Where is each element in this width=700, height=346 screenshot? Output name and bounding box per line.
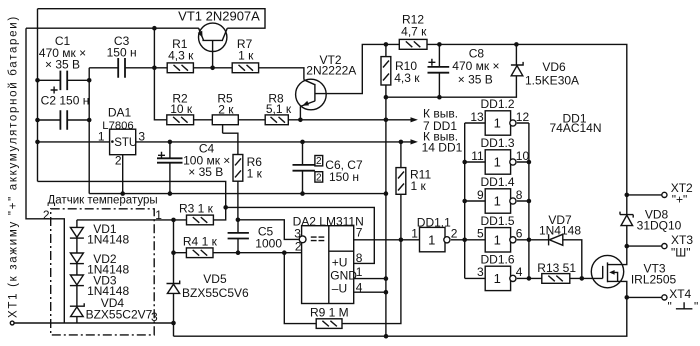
- svg-text:R3 1 к: R3 1 к: [179, 201, 214, 215]
- svg-text:150 н: 150 н: [329, 170, 359, 184]
- wire XT3 stub: [627, 245, 662, 247]
- junction at (225.7,207.4): [223, 205, 228, 210]
- resistor R4: [186, 248, 213, 258]
- junction at (173.5,323): [171, 321, 176, 326]
- transistor VT1: [198, 23, 228, 51]
- junction at (400.9,239.8): [399, 238, 404, 243]
- svg-text:74AC14N: 74AC14N: [549, 121, 601, 135]
- svg-text:DD1.5: DD1.5: [481, 214, 515, 228]
- svg-text:1000: 1000: [255, 237, 282, 251]
- svg-text:4,3 к: 4,3 к: [168, 49, 194, 63]
- wire DA2 pin7 to DD1.1: [354, 239, 420, 241]
- wire emitter row to ground node x386: [300, 119, 386, 121]
- junction at (439.4,97.2): [437, 95, 442, 100]
- wire R3 leads: [213, 207, 225, 220]
- svg-text:VD6: VD6: [542, 60, 566, 74]
- svg-text:1: 1: [494, 116, 501, 131]
- wire bottom rail: [174, 297, 627, 336]
- svg-text:470 мк ×: 470 мк ×: [452, 59, 499, 73]
- svg-text:5,1 к: 5,1 к: [266, 102, 292, 116]
- svg-text:3: 3: [477, 265, 484, 279]
- svg-text:C2 150 н: C2 150 н: [41, 94, 90, 108]
- svg-text:31DQ10: 31DQ10: [637, 218, 682, 232]
- wire bus to VD7: [529, 239, 549, 241]
- junction at (528.9,162): [527, 160, 532, 165]
- comparator DA2: [299, 226, 354, 304]
- junction at (626.8,194.9): [625, 193, 630, 198]
- wire VT2 collector up to R12: [327, 44, 399, 93]
- junction at (581.8,278.4): [580, 276, 585, 281]
- svg-text:13: 13: [470, 110, 484, 124]
- wire DA1 pin1: [38, 141, 110, 143]
- logic gate DD1.2: [485, 111, 516, 135]
- junction at (400.9,141.9): [399, 140, 404, 145]
- svg-text:IRL2505: IRL2505: [631, 273, 677, 287]
- resistor R3: [187, 215, 214, 225]
- junction at (302.5,193.6): [300, 191, 305, 196]
- protection diode VD6: [511, 62, 523, 76]
- svg-text:× 35 В: × 35 В: [458, 73, 493, 87]
- junction at (464.7,201): [462, 199, 467, 204]
- svg-text:7: 7: [356, 226, 363, 240]
- svg-text:XT1 (к зажиму "+" аккумуляторн: XT1 (к зажиму "+" аккумуляторной батареи…: [7, 15, 19, 318]
- capacitor C6 C7: [293, 165, 315, 171]
- svg-text:2: 2: [316, 172, 322, 183]
- svg-text:"+": "+": [672, 192, 688, 206]
- junction at (626.8,246.1): [625, 244, 630, 249]
- capacitor C2: [60, 110, 67, 130]
- junction at (385.9,97.2): [384, 95, 389, 100]
- logic gate DD1.1: [420, 227, 451, 251]
- resistor R12: [399, 39, 427, 49]
- wire XT1 row: [14, 323, 174, 336]
- svg-text:2 к: 2 к: [218, 102, 234, 116]
- wire top rail (VT1 collector to DA1 input node): [38, 9, 266, 29]
- junction at (122.7,193.6): [120, 191, 125, 196]
- wire R12 to right rail and down right edge: [427, 44, 627, 214]
- capacitor C8 plus sign: [428, 59, 435, 66]
- svg-text:2: 2: [451, 226, 458, 240]
- svg-text:10 к: 10 к: [170, 102, 193, 116]
- wire R11 leads: [400, 142, 402, 240]
- svg-text:DD1.1: DD1.1: [417, 216, 451, 230]
- junction at (169.9,141.9): [168, 140, 173, 145]
- schottky diode VD8: [620, 212, 633, 226]
- svg-text:1 к: 1 к: [411, 179, 427, 193]
- svg-text:12: 12: [516, 110, 530, 124]
- resistor R7: [232, 63, 258, 73]
- terminal XT3: [662, 244, 667, 249]
- capacitor C4: [157, 158, 183, 162]
- diode VD7: [549, 234, 563, 245]
- voltage regulator DA1: [110, 129, 136, 155]
- logic gate DD1.3: [485, 150, 516, 174]
- junction at (528.9,278.4): [527, 276, 532, 281]
- junction at (386,336.2): [384, 334, 389, 339]
- resistor R8: [265, 115, 288, 125]
- arrow to pin 7 DD1: [411, 117, 418, 122]
- junction at (626.8,297.4): [625, 295, 630, 300]
- junction at (89.2,80.3): [87, 78, 92, 83]
- wire VT3 source to XT4: [608, 281, 627, 297]
- svg-text:5: 5: [477, 227, 484, 241]
- wire x37.5 vertical (DA1 input node): [37, 9, 39, 182]
- junction at (464.7,162): [462, 160, 467, 165]
- terminal XT1: [10, 321, 14, 325]
- svg-text:2: 2: [295, 239, 302, 253]
- svg-text:1 к: 1 к: [247, 167, 263, 181]
- temperature sensor boundary box: [51, 209, 155, 335]
- svg-text:DD1.2: DD1.2: [481, 97, 515, 111]
- svg-text:1: 1: [155, 208, 162, 222]
- wire step to DA2 pin 3: [238, 220, 299, 240]
- svg-text:+U: +U: [332, 256, 348, 270]
- wire C4 leads: [169, 142, 171, 194]
- svg-text:3: 3: [294, 226, 301, 240]
- junction at (89.2,120): [87, 118, 92, 123]
- wire left battery branch x26 down to sensor pin2: [26, 28, 64, 323]
- capacitor C1: [60, 71, 67, 91]
- svg-text:": ": [694, 300, 698, 314]
- capacitor C3: [118, 58, 125, 78]
- junction at (385.9,278.6): [384, 276, 389, 281]
- wire DD output bus: [517, 123, 529, 278]
- terminal XT4: [662, 295, 667, 300]
- junction at (385.9,44.4): [384, 42, 389, 47]
- svg-text:DD1.4: DD1.4: [481, 175, 515, 189]
- junction at (516.4,44.4): [514, 42, 519, 47]
- wire x154 branch rail-to-R2: [154, 28, 166, 120]
- wire DD input bus: [465, 123, 486, 278]
- XT4 ground symbol: [676, 302, 693, 309]
- wire y181 line to R3/pin8 node: [38, 181, 226, 207]
- junction at (154.4,67.8): [152, 66, 157, 71]
- arrow to pin 14 DD1: [411, 139, 418, 144]
- wire C5 leads: [237, 220, 239, 253]
- svg-text:DA1: DA1: [108, 106, 132, 120]
- svg-text:Датчик температуры: Датчик температуры: [48, 195, 158, 207]
- svg-text:STU: STU: [114, 137, 137, 149]
- wire R6 bottom to C5 node: [237, 181, 239, 220]
- wire R4 row to DA2 pin2: [174, 252, 302, 254]
- resistor R2: [167, 115, 194, 125]
- capacitor C5: [228, 233, 249, 239]
- svg-text:4,3 к: 4,3 к: [394, 71, 420, 85]
- wire R9 loop pin2 node to pin7 node: [284, 240, 401, 324]
- svg-text:BZX55C5V6: BZX55C5V6: [182, 286, 249, 300]
- transistor VT3 (MOSFET): [591, 255, 623, 287]
- capacitor C6 C7 quantity boxes: [315, 156, 323, 183]
- svg-text:150 н: 150 н: [107, 46, 137, 60]
- svg-text:1.5KE30A: 1.5KE30A: [525, 74, 579, 88]
- capacitor C8: [428, 67, 450, 73]
- resistor R9: [316, 319, 342, 329]
- svg-text:11: 11: [471, 149, 484, 163]
- svg-text:1N4148: 1N4148: [87, 233, 129, 247]
- wire C8 leads: [438, 44, 440, 97]
- svg-text:DD1.6: DD1.6: [481, 253, 515, 267]
- svg-text:8: 8: [516, 188, 523, 202]
- wire diode chain verticals: [76, 220, 78, 323]
- diode VD1: [70, 227, 84, 238]
- wire C1 leads: [38, 79, 90, 81]
- wire +12V rail (battery to VT1 emitter): [26, 27, 199, 29]
- wire C3 leads: [89, 67, 154, 69]
- wire sensor chain top to R3: [77, 219, 187, 221]
- resistor R11: [396, 168, 406, 195]
- diode VD2: [70, 253, 84, 264]
- junction at (173.5,252.7): [171, 250, 176, 255]
- junction at (212.6,67.8): [210, 66, 215, 71]
- logic gate DD1.4: [485, 189, 516, 213]
- svg-text:BZX55C2V7: BZX55C2V7: [86, 308, 153, 322]
- svg-text:1: 1: [494, 232, 501, 247]
- svg-text:1: 1: [494, 155, 501, 170]
- transistor VT2: [296, 79, 327, 110]
- svg-text:14 DD1: 14 DD1: [422, 141, 463, 155]
- svg-text:9: 9: [477, 188, 484, 202]
- resistor R6: [233, 155, 243, 182]
- wire VT2 emitter lead: [299, 106, 301, 120]
- svg-text:R4 1 к: R4 1 к: [183, 235, 218, 249]
- junction at (528.9,201): [527, 199, 532, 204]
- svg-text:10: 10: [516, 149, 530, 163]
- capacitor C1 plus sign: [51, 87, 58, 94]
- wire K vyv 7 DD1 arrow line: [386, 119, 412, 121]
- junction at (37.5,80.3): [35, 78, 40, 83]
- svg-text:–U: –U: [332, 281, 347, 295]
- resistor R10: [381, 57, 391, 85]
- svg-text:VD5: VD5: [203, 272, 227, 286]
- svg-text:2: 2: [115, 153, 122, 167]
- junction at (154.4,28.2): [152, 26, 157, 31]
- wire R10 leads on x386 vertical: [385, 44, 387, 336]
- svg-text:DD1.3: DD1.3: [481, 136, 515, 150]
- wire VD7 cathode to gate node: [563, 240, 582, 279]
- junction at (385.9,193.6): [384, 191, 389, 196]
- junction dots group: [35, 26, 629, 339]
- wire R5 trimmer tap to R6: [223, 125, 238, 155]
- logic gate DD1.6: [485, 266, 516, 290]
- svg-text:": ": [668, 300, 672, 314]
- svg-text:VT1 2N2907A: VT1 2N2907A: [178, 9, 260, 24]
- svg-text:R13 51: R13 51: [537, 261, 576, 275]
- wire DA1 pin2 down: [122, 155, 124, 194]
- svg-text:3: 3: [138, 130, 145, 144]
- svg-text:DA2 LM311N: DA2 LM311N: [293, 214, 364, 228]
- svg-text:1: 1: [411, 226, 418, 240]
- logic gate DD1.5: [485, 228, 516, 252]
- junction at (439.4,44.4): [437, 42, 442, 47]
- wire x89 capacitor common vertical: [88, 68, 90, 194]
- resistor R13: [542, 274, 570, 284]
- svg-text:"Ш": "Ш": [671, 245, 691, 259]
- zener diode VD5: [167, 281, 180, 294]
- svg-text:1: 1: [98, 130, 105, 144]
- svg-text:1: 1: [494, 271, 501, 286]
- wire DA2 pin1 pin4 stubs: [354, 279, 386, 293]
- junction at (300.4,119.8): [298, 118, 303, 123]
- wire C8/VD6 bottom row: [386, 44, 517, 97]
- svg-text:1N4148: 1N4148: [539, 224, 581, 238]
- svg-text:× 35 В: × 35 В: [45, 57, 80, 71]
- junction at (37.5,141.9): [35, 140, 40, 145]
- junction at (464.7,239.8): [462, 238, 467, 243]
- svg-text:6: 6: [516, 227, 523, 241]
- wire VT1 base lead: [212, 40, 214, 67]
- svg-text:4: 4: [516, 265, 523, 279]
- svg-text:1: 1: [494, 194, 501, 209]
- svg-text:XT4: XT4: [669, 287, 691, 301]
- svg-text:2: 2: [316, 156, 322, 167]
- svg-text:8: 8: [356, 251, 363, 265]
- wire bus to R13 and R13 to gate: [529, 277, 603, 279]
- terminal XT2: [662, 192, 667, 197]
- junction at (284.3,252.7): [282, 250, 287, 255]
- wire VD8 to XT3 and drain: [608, 226, 627, 265]
- junction at (169.9,193.6): [168, 191, 173, 196]
- wire y207 line to DA2 pin 8: [226, 207, 375, 263]
- svg-text:2: 2: [43, 208, 50, 222]
- wire C2 leads: [38, 119, 90, 121]
- svg-text:1 к: 1 к: [238, 49, 254, 63]
- wire XT4 stub: [627, 296, 662, 298]
- svg-text:× 35 В: × 35 В: [188, 165, 223, 179]
- svg-text:1: 1: [428, 232, 435, 247]
- wire XT2 stub: [627, 194, 662, 196]
- svg-text:R9 1 M: R9 1 M: [310, 305, 349, 319]
- diode VD3: [70, 275, 84, 286]
- resistor R5 (trimmer): [212, 115, 238, 125]
- junction at (385.9,292.2): [384, 290, 389, 295]
- wire R2-R5-R8 row: [194, 119, 301, 121]
- wire VD5 leads: [173, 220, 175, 323]
- junction at (237.9,219.8): [236, 218, 241, 223]
- junction at (385.9,119.8): [384, 118, 389, 123]
- svg-text:2N2222A: 2N2222A: [306, 63, 356, 77]
- svg-text:L7806: L7806: [102, 120, 133, 132]
- wire C3/R1 row: [154, 68, 304, 80]
- junction at (302.5,141.9): [300, 140, 305, 145]
- zener diode VD4: [70, 303, 84, 316]
- capacitor C4 plus sign: [158, 152, 165, 159]
- wire ground rail y193.6: [89, 193, 386, 195]
- wire DD1.1 output to input bus: [451, 239, 465, 241]
- junction at (173.5,219.9): [171, 218, 176, 223]
- resistor R1: [167, 63, 193, 73]
- wire C6 C7 leads: [302, 142, 304, 194]
- wire +6V rail from DA1 pin3: [136, 141, 412, 143]
- junction at (238,252.7): [236, 250, 241, 255]
- junction at (528.9,239.8): [527, 238, 532, 243]
- junction at (37.5,120): [35, 118, 40, 123]
- svg-text:4,7 к: 4,7 к: [401, 25, 427, 39]
